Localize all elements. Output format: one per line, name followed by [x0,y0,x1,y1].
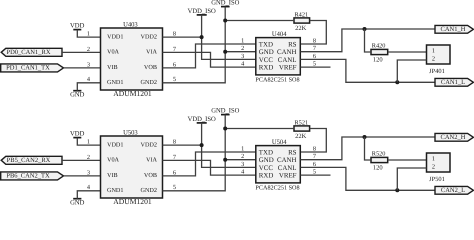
junction CANL / JP401 pin 2 [395,80,399,84]
svg-text:GND_ISO: GND_ISO [211,108,239,115]
svg-text:22K: 22K [295,133,307,140]
ground port GND (U403 pin 4) [73,90,81,92]
svg-text:5: 5 [173,76,176,83]
svg-text:GND2: GND2 [141,79,158,86]
svg-text:RXD: RXD [259,173,274,180]
svg-text:CAN2_L: CAN2_L [441,187,465,194]
junction CANH / R520 [363,135,367,139]
svg-text:PCA82C251 SO8: PCA82C251 SO8 [255,185,299,192]
svg-text:3: 3 [241,161,244,168]
wire VDD to pin 1 [77,30,100,37]
wire pin 4 to GND [77,191,100,199]
svg-text:TXD: TXD [259,41,273,48]
svg-text:VDD1: VDD1 [107,33,124,40]
svg-text:R520: R520 [372,150,386,157]
svg-text:VIB: VIB [107,64,118,71]
wire U504 pin 6 CANL to CAN2_L [301,167,436,190]
wire CANH to R420 left [365,29,372,52]
svg-text:RS: RS [288,149,297,156]
wire PB6_CAN2_TX to pin 3 [64,175,101,177]
svg-text:U504: U504 [272,139,287,146]
svg-text:U404: U404 [272,31,287,38]
svg-text:VREF: VREF [279,173,297,180]
svg-text:CANL: CANL [278,57,297,64]
wire GND_ISO to R421 left [225,20,294,22]
svg-text:2: 2 [432,163,435,170]
port flag PD0_CAN1_RX [1,48,62,56]
svg-text:U503: U503 [123,130,138,137]
wire U504 pin 7 CANH to CAN2_H [301,137,436,160]
svg-text:3: 3 [87,169,90,176]
wire U503 pin 8 VDD2 to VDD_ISO [163,144,202,146]
svg-text:4: 4 [87,76,91,83]
wire CANH to R520 left [365,137,372,160]
wire JP401 pin 2 to CANL [397,60,426,82]
port flag CAN2_H [435,133,473,141]
wire GND_ISO to R521 left [225,128,294,130]
svg-text:JP501: JP501 [429,176,445,183]
wire R421 right to U404 pin 8 RS [301,21,327,45]
CAN transceiver U404 PCA82C251 [256,38,300,75]
digital isolator U403 ADUM1201 [101,28,163,90]
wire VDD_ISO to U404 VCC pin 3 [202,15,256,60]
wire VDD_ISO to U504 VCC pin 3 [202,123,256,167]
wire U404 pin 5 VREF stub [301,66,331,68]
svg-text:VREF: VREF [279,65,297,72]
svg-text:2: 2 [432,55,435,62]
svg-text:3: 3 [87,61,90,68]
svg-text:VDD_ISO: VDD_ISO [188,116,216,123]
svg-text:CAN1_L: CAN1_L [441,79,465,86]
svg-text:PB6_CAN2_TX: PB6_CAN2_TX [6,173,50,180]
svg-text:V0A: V0A [107,49,120,56]
wire U403 pin 6 VOB to U404 pin 1 TXD [163,44,256,68]
junction CANH / R420 [363,27,367,31]
wire GND_ISO rail to U503 pin 5 GND2 [163,115,226,191]
svg-text:GND1: GND1 [107,79,124,86]
junction GND_ISO / pin 2 [223,158,227,162]
svg-text:GND: GND [70,199,85,206]
svg-text:GND: GND [259,49,274,56]
junction GND_ISO / R421 [223,19,227,23]
junction VDD_ISO node [200,35,204,39]
svg-text:8: 8 [313,38,316,45]
wire U503 pin 7 VIA to U504 pin 4 RXD [163,160,256,175]
svg-text:U403: U403 [123,22,138,29]
port flag CAN2_L [435,186,473,194]
wire VDD to pin 1 [77,138,100,146]
svg-text:2: 2 [241,45,244,52]
svg-text:VIA: VIA [146,49,158,56]
wire GND_ISO branch to U504 GND pin 2 [225,159,255,161]
ground port GND (U503 pin 4) [73,198,81,200]
digital isolator U503 ADUM1201 [101,136,163,198]
svg-text:GND2: GND2 [141,187,158,194]
svg-text:VIB: VIB [107,172,118,179]
svg-text:PCA82C251 SO8: PCA82C251 SO8 [255,77,299,84]
svg-text:1: 1 [87,139,90,146]
svg-text:VIA: VIA [146,157,158,164]
svg-text:R420: R420 [372,42,386,49]
svg-text:5: 5 [173,184,176,191]
wire U504 pin 5 VREF stub [301,174,331,176]
svg-text:1: 1 [87,31,90,38]
svg-text:120: 120 [373,57,383,64]
svg-text:2: 2 [87,154,90,161]
svg-text:4: 4 [87,184,91,191]
svg-text:CAN1_H: CAN1_H [441,26,466,33]
svg-text:3: 3 [241,53,244,60]
svg-text:PD0_CAN1_RX: PD0_CAN1_RX [6,49,50,56]
wire U404 pin 7 CANH to CAN1_H [301,29,436,52]
svg-text:1: 1 [241,146,244,153]
svg-text:2: 2 [87,46,90,53]
junction GND_ISO / pin 2 [223,50,227,54]
svg-text:GND: GND [259,157,274,164]
wire R521 right to U504 pin 8 RS [301,129,327,153]
svg-text:22K: 22K [295,25,307,32]
CAN transceiver U504 PCA82C251 [256,146,300,183]
wire U403 pin 7 VIA to U404 pin 4 RXD [163,52,256,67]
svg-text:RXD: RXD [259,65,274,72]
port flag CAN1_L [435,78,473,86]
svg-text:VDD2: VDD2 [141,141,158,148]
svg-text:VDD: VDD [70,23,85,30]
wire U404 pin 6 CANL to CAN1_L [301,59,436,82]
wire R520 right to JP501 pin 1 [388,159,427,161]
port flag PB6_CAN2_TX [1,172,64,180]
svg-text:VCC: VCC [259,57,274,64]
svg-text:VOB: VOB [144,172,157,179]
svg-text:ADUM1201: ADUM1201 [113,197,152,206]
wire PB5_CAN2_RX to pin 2 [62,159,101,161]
svg-text:VDD: VDD [70,131,85,138]
wire R420 right to JP401 pin 1 [388,51,427,53]
svg-text:ADUM1201: ADUM1201 [113,89,152,98]
svg-text:CANH: CANH [277,157,297,164]
wire pin 4 to GND [77,83,100,91]
svg-text:GND1: GND1 [107,187,124,194]
wire U503 pin 6 VOB to U504 pin 1 TXD [163,152,256,176]
svg-text:8: 8 [313,146,316,153]
port flag CAN1_H [435,25,473,33]
svg-text:CANH: CANH [277,49,297,56]
connector JP501 [427,153,451,172]
svg-text:1: 1 [432,155,435,162]
svg-text:GND: GND [70,91,85,98]
port flag PD1_CAN1_TX [1,64,64,72]
wire PD1_CAN1_TX to pin 3 [64,67,101,69]
junction VDD_ISO node [200,143,204,147]
svg-text:1: 1 [241,38,244,45]
svg-text:TXD: TXD [259,149,273,156]
svg-text:CANL: CANL [278,165,297,172]
svg-text:V0A: V0A [107,157,120,164]
wire GND_ISO rail to U403 pin 5 GND2 [163,7,226,83]
svg-text:GND_ISO: GND_ISO [211,0,239,7]
port flag PB5_CAN2_RX [1,156,62,164]
svg-text:CAN2_H: CAN2_H [441,134,466,141]
svg-text:8: 8 [173,139,176,146]
svg-text:PB5_CAN2_RX: PB5_CAN2_RX [7,157,51,164]
wire JP501 pin 2 to CANL [397,168,426,190]
svg-text:120: 120 [373,165,383,172]
svg-text:2: 2 [241,153,244,160]
svg-text:VDD2: VDD2 [141,33,158,40]
connector JP401 [427,45,451,64]
wire GND_ISO branch to U404 GND pin 2 [225,51,255,53]
svg-text:RS: RS [288,41,297,48]
svg-text:VDD1: VDD1 [107,141,124,148]
svg-text:PD1_CAN1_TX: PD1_CAN1_TX [6,65,50,72]
junction CANL / JP501 pin 2 [395,188,399,192]
svg-text:VOB: VOB [144,64,157,71]
junction GND_ISO / R521 [223,127,227,131]
wire U403 pin 8 VDD2 to VDD_ISO [163,36,202,38]
svg-text:1: 1 [432,47,435,54]
svg-text:VCC: VCC [259,165,274,172]
svg-text:JP401: JP401 [429,68,445,75]
wire PD0_CAN1_RX to pin 2 [62,51,101,53]
